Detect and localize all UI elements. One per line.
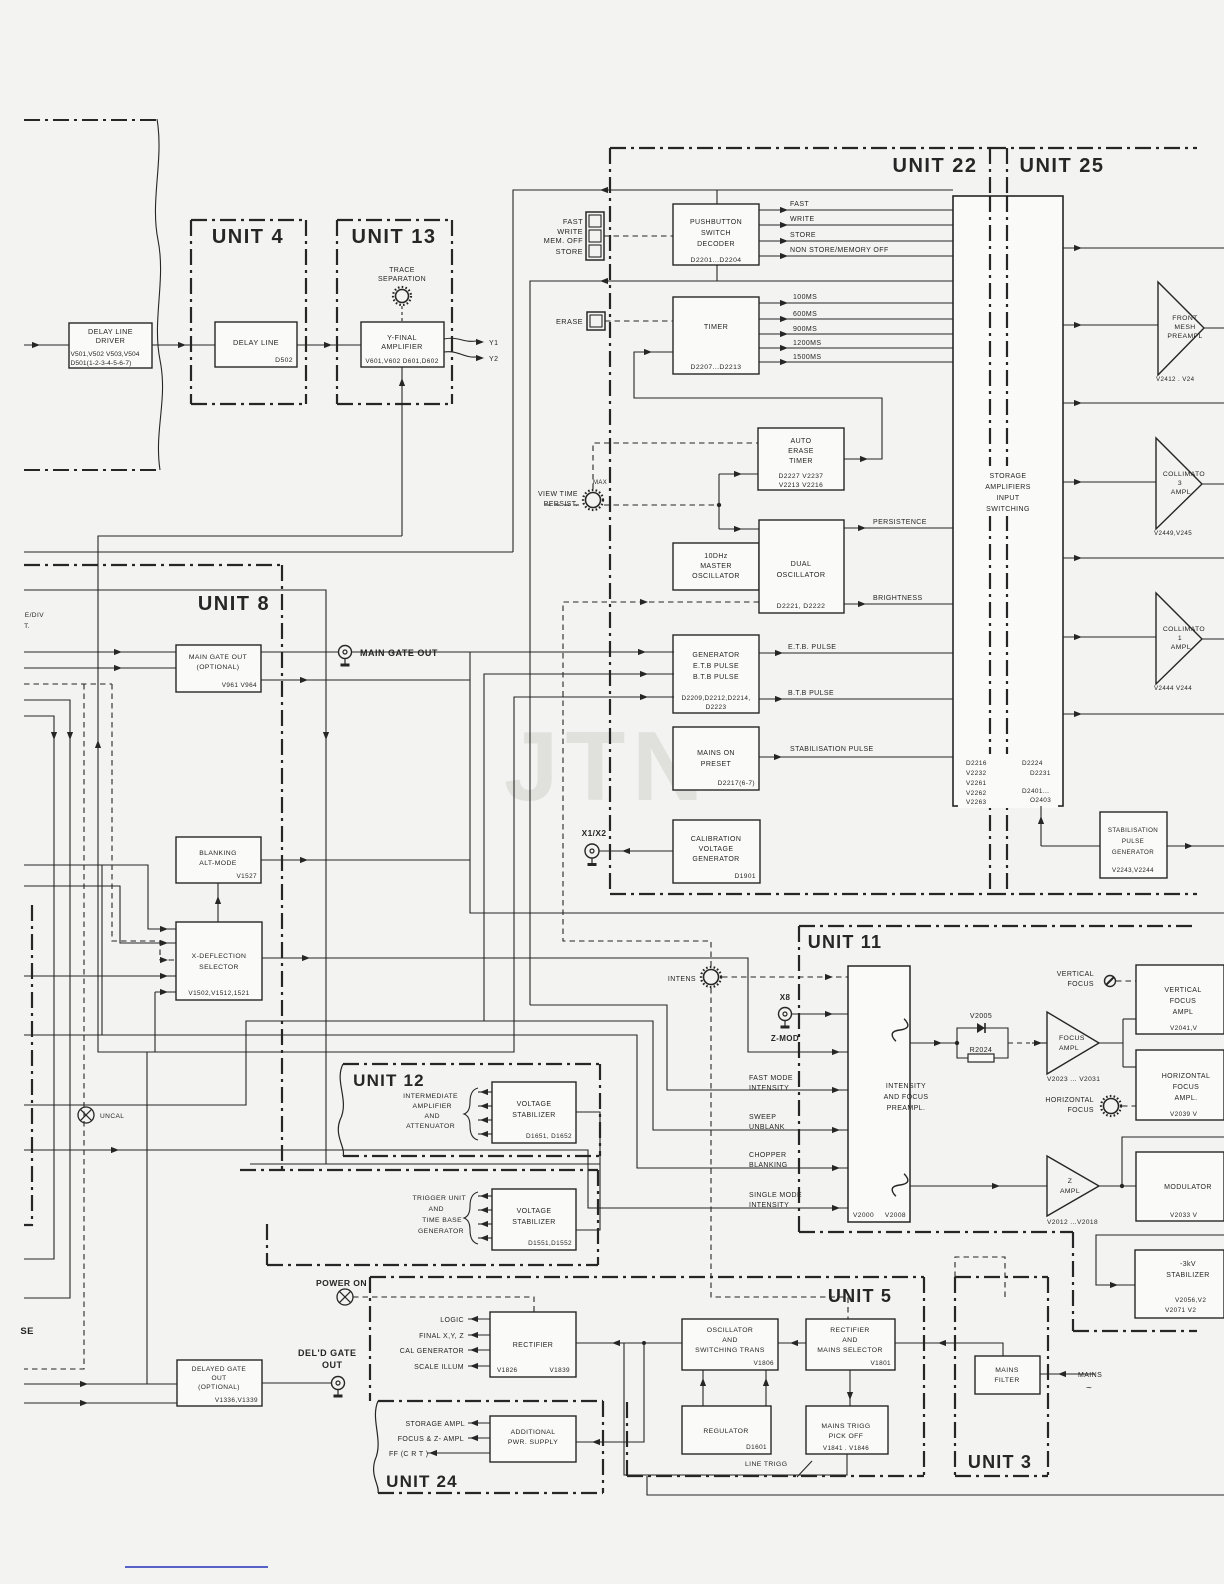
- block dual oscillator: [759, 520, 844, 613]
- svg-text:STORE: STORE: [556, 247, 583, 256]
- storage output line 2 to front mesh preamp: [1063, 324, 1158, 326]
- left wire trunk x=98: [98, 536, 674, 1052]
- svg-text:V2262: V2262: [966, 790, 987, 797]
- svg-text:PRESET: PRESET: [701, 761, 732, 768]
- svg-text:MAIN GATE OUT: MAIN GATE OUT: [189, 654, 247, 661]
- trigger unit sub border: [240, 1169, 598, 1171]
- svg-text:100MS: 100MS: [793, 294, 817, 301]
- svg-text:Y-FINAL: Y-FINAL: [387, 333, 417, 342]
- svg-text:V501,V502 V503,V504: V501,V502 V503,V504: [71, 351, 140, 358]
- wire output Y2: [444, 352, 476, 357]
- svg-text:Y2: Y2: [489, 356, 498, 363]
- wire auto erase timer to timer input: [634, 352, 882, 459]
- unit borders through storage box: [989, 196, 991, 806]
- svg-text:E.T.B PULSE: E.T.B PULSE: [693, 663, 739, 670]
- wire calibration generator to X1/X2: [599, 850, 673, 852]
- svg-text:BRIGHTNESS: BRIGHTNESS: [873, 595, 923, 602]
- UNIT 22 border: [610, 147, 990, 149]
- wire feedback to decoder top: [513, 190, 953, 552]
- wire single mode intensity: [24, 1150, 848, 1208]
- svg-text:SWITCHING: SWITCHING: [986, 506, 1030, 513]
- svg-text:1200MS: 1200MS: [793, 340, 821, 347]
- svg-text:VIEW TIME: VIEW TIME: [538, 491, 578, 498]
- svg-text:AND: AND: [842, 1337, 858, 1344]
- wire main gate second output: [261, 679, 470, 681]
- storage output line 6 to collimator 1: [1063, 636, 1156, 638]
- svg-text:FILTER: FILTER: [994, 1377, 1019, 1384]
- svg-text:VOLTAGE: VOLTAGE: [517, 1101, 552, 1108]
- svg-text:DUAL: DUAL: [791, 559, 812, 568]
- wire z input: [910, 1185, 1047, 1187]
- dashed unit3 riser: [955, 1257, 1005, 1300]
- svg-text:D2207...D2213: D2207...D2213: [691, 364, 742, 371]
- svg-text:V2000: V2000: [853, 1212, 874, 1219]
- svg-text:ERASE: ERASE: [788, 448, 814, 455]
- svg-text:V961 V964: V961 V964: [222, 682, 257, 689]
- UNIT 25 border: [990, 147, 1197, 149]
- block horizontal focus ampl: [1136, 1050, 1224, 1120]
- block calibration voltage generator: [673, 820, 760, 883]
- svg-text:PULSE: PULSE: [1122, 838, 1144, 845]
- svg-text:OUT: OUT: [322, 1360, 343, 1370]
- wire stabilizer feeds: [576, 1112, 600, 1230]
- svg-text:UNCAL: UNCAL: [100, 1113, 124, 1120]
- svg-text:VOLTAGE: VOLTAGE: [517, 1208, 552, 1215]
- svg-text:AMPLIFIER: AMPLIFIER: [413, 1103, 452, 1110]
- svg-text:X8: X8: [780, 993, 791, 1002]
- svg-text:E.T.B. PULSE: E.T.B. PULSE: [788, 644, 836, 651]
- svg-text:TIMER: TIMER: [789, 458, 813, 465]
- svg-text:V1826: V1826: [497, 1367, 518, 1374]
- dashed wire erase to timer: [605, 320, 673, 322]
- wire X8 to preamp: [792, 1013, 848, 1015]
- svg-text:T.: T.: [24, 623, 30, 630]
- svg-text:FF (C R T ): FF (C R T ): [389, 1451, 429, 1458]
- svg-text:FOCUS: FOCUS: [1170, 998, 1197, 1005]
- trunk wire down to unit 11 top line: [470, 652, 1224, 913]
- svg-text:INTENS: INTENS: [668, 976, 696, 983]
- svg-text:GENERATOR: GENERATOR: [692, 856, 739, 863]
- svg-text:FOCUS & Z- AMPL: FOCUS & Z- AMPL: [398, 1436, 464, 1443]
- block mains trigg pick off: [806, 1406, 888, 1454]
- UNIT 4 border: [190, 220, 192, 404]
- svg-text:PERSISTENCE: PERSISTENCE: [873, 519, 927, 526]
- svg-text:UNIT 22: UNIT 22: [893, 155, 978, 177]
- svg-text:TIMER: TIMER: [704, 322, 728, 331]
- amplifier z ampl: [1047, 1156, 1099, 1216]
- svg-text:UNIT 8: UNIT 8: [198, 593, 270, 615]
- svg-text:1500MS: 1500MS: [793, 354, 821, 361]
- svg-text:DELAYED GATE: DELAYED GATE: [192, 1366, 247, 1373]
- UNIT 24 border with wavy left: [378, 1400, 603, 1402]
- svg-text:DELAY LINE: DELAY LINE: [88, 327, 133, 336]
- svg-text:MAINS SELECTOR: MAINS SELECTOR: [817, 1347, 883, 1354]
- wire selector to mains trigg: [849, 1370, 851, 1406]
- svg-text:V1806: V1806: [754, 1360, 775, 1367]
- svg-text:D1601: D1601: [746, 1444, 767, 1451]
- svg-text:AMPL: AMPL: [1059, 1045, 1079, 1052]
- wire feed to y-final from below: [401, 367, 403, 536]
- amplifier focus ampl: [1047, 1012, 1099, 1074]
- bottom left unit border fragment: [24, 905, 32, 1225]
- wire input main gate 2: [24, 667, 176, 669]
- wire feedback decoder bottom: [530, 281, 953, 1005]
- svg-text:FOCUS: FOCUS: [1068, 1107, 1095, 1114]
- svg-text:UNIT 25: UNIT 25: [1020, 155, 1105, 177]
- amplifier front mesh preampl: [1158, 282, 1204, 375]
- svg-text:MAINS TRIGG: MAINS TRIGG: [821, 1423, 870, 1430]
- svg-text:INPUT: INPUT: [997, 495, 1020, 502]
- svg-text:AMPL.: AMPL.: [1171, 489, 1193, 496]
- svg-text:Z-MOD: Z-MOD: [771, 1034, 799, 1043]
- svg-text:D2221, D2222: D2221, D2222: [777, 603, 826, 610]
- block voltage stabilizer D1551: [492, 1189, 576, 1250]
- svg-text:D2216: D2216: [966, 760, 987, 767]
- wire junction to additional pwr supply: [576, 1343, 644, 1442]
- brace and arrows voltage stabilizer 2: [464, 1192, 478, 1244]
- svg-text:V2449,V245: V2449,V245: [1154, 530, 1192, 537]
- pushbutton switch stack: [586, 212, 604, 260]
- svg-text:V2232: V2232: [966, 770, 987, 777]
- ERASE pushbutton: [587, 312, 605, 330]
- svg-text:STABILISATION: STABILISATION: [1108, 827, 1158, 834]
- svg-text:INTERMEDIATE: INTERMEDIATE: [403, 1093, 458, 1100]
- storage output line 7: [1063, 713, 1224, 715]
- svg-text:LINE TRIGG: LINE TRIGG: [745, 1461, 787, 1468]
- block delay line driver: [69, 323, 152, 368]
- svg-text:FOCUS: FOCUS: [1059, 1035, 1085, 1042]
- dashed power on to rectifier: [353, 1297, 534, 1312]
- wire mains selector to oscillator: [778, 1342, 806, 1344]
- wire chopper blanking: [24, 1035, 848, 1168]
- svg-text:AMPL.: AMPL.: [1174, 1095, 1197, 1102]
- svg-text:SWITCH: SWITCH: [701, 230, 731, 237]
- dashed wire pot to bracket: [604, 504, 719, 506]
- svg-text:V2005: V2005: [970, 1013, 992, 1020]
- svg-text:STABILIZER: STABILIZER: [512, 1219, 556, 1226]
- svg-text:600MS: 600MS: [793, 311, 817, 318]
- svg-text:HORIZONTAL: HORIZONTAL: [1045, 1097, 1094, 1104]
- wire input main gate 1: [24, 651, 176, 653]
- svg-text:AMPL: AMPL: [1060, 1188, 1080, 1195]
- wire focus ampl output branches: [1099, 1042, 1123, 1044]
- svg-text:D501(1-2-3-4-5-6-7): D501(1-2-3-4-5-6-7): [71, 360, 132, 367]
- svg-text:MASTER: MASTER: [700, 563, 732, 570]
- wire mains selector to mains filter: [895, 1343, 1003, 1356]
- svg-text:UNIT 5: UNIT 5: [828, 1286, 892, 1306]
- svg-text:3: 3: [1178, 480, 1182, 487]
- svg-text:TRIGGER UNIT: TRIGGER UNIT: [412, 1195, 466, 1202]
- wire xdefl output: [262, 958, 848, 1052]
- wire into delay line driver: [24, 344, 69, 346]
- svg-text:Z: Z: [1068, 1178, 1073, 1185]
- main gate out connector: [339, 646, 352, 659]
- INTENS pot: [704, 970, 719, 985]
- svg-text:D2217(6-7): D2217(6-7): [718, 780, 755, 787]
- svg-text:UNBLANK: UNBLANK: [749, 1124, 785, 1131]
- blue pen mark bottom: [125, 1566, 268, 1568]
- svg-text:PREAMPL: PREAMPL: [1167, 333, 1202, 340]
- UNIT 12 border with wavy left edge: [343, 1063, 600, 1065]
- dashed wire pot to auto erase timer: [593, 443, 758, 489]
- svg-text:INTENSITY: INTENSITY: [749, 1085, 789, 1092]
- storage output line 4 to collimator 3: [1063, 481, 1156, 483]
- svg-text:V1527: V1527: [237, 873, 258, 880]
- svg-text:OSCILLATOR: OSCILLATOR: [707, 1327, 753, 1334]
- svg-text:MAIN GATE OUT: MAIN GATE OUT: [360, 648, 438, 658]
- svg-text:MAINS: MAINS: [1078, 1372, 1102, 1379]
- svg-text:STORAGE: STORAGE: [990, 473, 1027, 480]
- svg-text:SELECTOR: SELECTOR: [199, 964, 239, 971]
- svg-text:D1651, D1652: D1651, D1652: [526, 1133, 572, 1140]
- svg-text:STORAGE AMPL: STORAGE AMPL: [405, 1421, 465, 1428]
- svg-text:UNIT 4: UNIT 4: [212, 226, 284, 248]
- block auto erase timer: [758, 428, 844, 490]
- svg-text:V2041,V: V2041,V: [1170, 1025, 1198, 1032]
- storage output line 5: [1063, 557, 1224, 559]
- wire xdefl inputs: [24, 865, 176, 929]
- svg-text:STABILIZER: STABILIZER: [512, 1112, 556, 1119]
- block y-final amplifier: [361, 322, 444, 367]
- svg-text:OUT: OUT: [211, 1375, 226, 1382]
- svg-text:RECTIFIER: RECTIFIER: [830, 1327, 869, 1334]
- svg-text:STORE: STORE: [790, 232, 816, 239]
- svg-text:PREAMPL.: PREAMPL.: [887, 1105, 926, 1112]
- svg-text:D2401...: D2401...: [1022, 788, 1049, 795]
- svg-text:DECODER: DECODER: [697, 241, 735, 248]
- svg-text:AUTO: AUTO: [791, 438, 812, 445]
- svg-text:D2201...D2204: D2201...D2204: [691, 257, 742, 264]
- block pushbutton switch decoder: [673, 204, 759, 265]
- svg-text:CHOPPER: CHOPPER: [749, 1152, 786, 1159]
- wire main gate to connector and generator: [261, 651, 339, 653]
- svg-text:GENERATOR: GENERATOR: [692, 652, 739, 659]
- svg-text:WRITE: WRITE: [790, 216, 815, 223]
- svg-text:AND FOCUS: AND FOCUS: [884, 1094, 929, 1101]
- svg-text:D2223: D2223: [706, 704, 727, 711]
- wire output Y1: [444, 338, 476, 341]
- svg-text:SCALE ILLUM: SCALE ILLUM: [414, 1364, 464, 1371]
- dashed intens to preamp: [722, 976, 848, 978]
- svg-text:OSCILLATOR: OSCILLATOR: [692, 573, 740, 580]
- svg-text:GENERATOR: GENERATOR: [1112, 849, 1154, 856]
- wire xdefl to blanking: [217, 883, 219, 922]
- svg-text:D502: D502: [275, 357, 293, 364]
- svg-text:V2243,V2244: V2243,V2244: [1112, 867, 1154, 874]
- UNIT 13 border: [336, 220, 338, 404]
- UNCAL lamp: [78, 1107, 94, 1123]
- block storage amplifiers input switching: [953, 196, 1063, 806]
- block regulator: [682, 1406, 771, 1454]
- wire bracket to auto erase timer and dual oscillator: [718, 474, 720, 529]
- svg-text:FOCUS: FOCUS: [1173, 1084, 1200, 1091]
- svg-text:R2024: R2024: [970, 1047, 993, 1054]
- svg-text:D2224: D2224: [1022, 760, 1043, 767]
- left wire trunk y=591: [24, 590, 326, 1164]
- wire trunk x102: [101, 865, 103, 1035]
- wire lower trunk x147: [146, 1052, 148, 1384]
- block x-deflection selector: [176, 922, 262, 1000]
- storage output line 3: [1063, 402, 1224, 404]
- svg-text:V2444 V244: V2444 V244: [1154, 685, 1192, 692]
- storage output line 1: [1063, 247, 1224, 249]
- svg-text:STABILISATION PULSE: STABILISATION PULSE: [790, 746, 874, 753]
- svg-text:MEM. OFF: MEM. OFF: [544, 236, 583, 245]
- svg-text:ATTENUATOR: ATTENUATOR: [406, 1123, 455, 1130]
- svg-text:B.T.B PULSE: B.T.B PULSE: [788, 690, 834, 697]
- svg-text:FINAL X,Y, Z: FINAL X,Y, Z: [419, 1333, 464, 1340]
- svg-text:VERTICAL: VERTICAL: [1164, 987, 1201, 994]
- svg-text:OSCILLATOR: OSCILLATOR: [777, 570, 826, 579]
- svg-text:X1/X2: X1/X2: [582, 828, 607, 838]
- svg-text:NON STORE/MEMORY OFF: NON STORE/MEMORY OFF: [790, 247, 889, 254]
- svg-text:TRACE: TRACE: [389, 267, 415, 274]
- svg-text:1: 1: [1178, 635, 1182, 642]
- svg-text:V2412 . V24: V2412 . V24: [1156, 376, 1195, 383]
- UNIT 8 border: [24, 564, 282, 566]
- svg-text:TIME BASE: TIME BASE: [422, 1217, 462, 1224]
- svg-text:PUSHBUTTON: PUSHBUTTON: [690, 219, 742, 226]
- svg-text:(OPTIONAL): (OPTIONAL): [197, 664, 240, 671]
- svg-text:FRONT: FRONT: [1172, 315, 1197, 322]
- svg-text:HORIZONTAL: HORIZONTAL: [1162, 1073, 1211, 1080]
- svg-text:LOGIC: LOGIC: [440, 1317, 464, 1324]
- svg-text:V1801: V1801: [871, 1360, 892, 1367]
- svg-text:WRITE: WRITE: [557, 227, 583, 236]
- svg-text:V2039 V: V2039 V: [1170, 1111, 1198, 1118]
- svg-text:V2008: V2008: [885, 1212, 906, 1219]
- wire preamp to diode network: [910, 1042, 957, 1044]
- block timer: [673, 297, 759, 374]
- block oscillator and switching trans: [682, 1319, 778, 1370]
- svg-text:DEL'D GATE: DEL'D GATE: [298, 1348, 356, 1358]
- svg-text:AMPL.: AMPL.: [1171, 644, 1193, 651]
- svg-text:MESH: MESH: [1174, 324, 1195, 331]
- svg-text:MAINS: MAINS: [995, 1367, 1019, 1374]
- wire storage box to stabilisation pulse generator: [1063, 845, 1100, 847]
- wire to -3kV stabilizer: [1096, 1235, 1224, 1285]
- svg-text:D2231: D2231: [1030, 770, 1051, 777]
- block generator ETB BTB pulse: [673, 635, 759, 713]
- svg-text:INTENSITY: INTENSITY: [749, 1202, 789, 1209]
- block 10DHz master oscillator: [673, 543, 759, 590]
- wire fast mode intensity: [530, 1005, 848, 1090]
- svg-text:PICK OFF: PICK OFF: [829, 1433, 864, 1440]
- dashed brightness control from intens pot: [563, 602, 759, 967]
- svg-text:FAST: FAST: [790, 201, 809, 208]
- svg-text:MAX: MAX: [593, 480, 607, 486]
- svg-text:900MS: 900MS: [793, 326, 817, 333]
- block -3kV stabilizer: [1135, 1250, 1224, 1318]
- svg-text:SWEEP: SWEEP: [749, 1114, 776, 1121]
- svg-text:AND: AND: [428, 1206, 444, 1213]
- block voltage stabilizer D1651: [492, 1082, 576, 1143]
- svg-text:O2403: O2403: [1030, 797, 1051, 804]
- block stabilisation pulse generator: [1100, 812, 1167, 878]
- svg-text:SINGLE MODE: SINGLE MODE: [749, 1192, 802, 1199]
- svg-text:INTENSITY: INTENSITY: [886, 1083, 926, 1090]
- svg-text:10DHz: 10DHz: [704, 553, 727, 560]
- svg-text:~: ~: [1086, 1383, 1092, 1394]
- wire z ampl output: [1099, 1185, 1136, 1187]
- svg-text:E/DIV: E/DIV: [25, 612, 44, 619]
- svg-text:V2071 V2: V2071 V2: [1165, 1307, 1196, 1314]
- svg-text:Y1: Y1: [489, 340, 498, 347]
- diode V2005 and resistor R2024: [957, 1028, 1008, 1043]
- svg-text:AMPL: AMPL: [1173, 1009, 1194, 1016]
- svg-text:UNIT 24: UNIT 24: [386, 1472, 458, 1491]
- svg-text:DRIVER: DRIVER: [96, 336, 126, 345]
- svg-text:COLLIMATO: COLLIMATO: [1163, 471, 1205, 478]
- svg-text:CALIBRATION: CALIBRATION: [691, 836, 742, 843]
- svg-text:D2209,D2212,D2214,: D2209,D2212,D2214,: [681, 695, 750, 702]
- svg-text:ALT-MODE: ALT-MODE: [199, 860, 237, 867]
- svg-text:D1901: D1901: [735, 873, 756, 880]
- svg-text:V2023 ... V2031: V2023 ... V2031: [1047, 1076, 1100, 1083]
- UNIT 5 border: [370, 1276, 924, 1278]
- wire blanking output: [261, 859, 470, 861]
- block mains filter: [975, 1356, 1040, 1394]
- svg-text:COLLIMATO: COLLIMATO: [1163, 626, 1205, 633]
- left dashed trunk: [24, 683, 112, 685]
- amplifier collimator 3: [1156, 438, 1202, 529]
- block rectifier and mains selector: [806, 1319, 895, 1370]
- svg-text:STABILIZER: STABILIZER: [1166, 1272, 1210, 1279]
- block vertical focus ampl: [1136, 965, 1224, 1034]
- svg-text:UNIT 3: UNIT 3: [968, 1452, 1032, 1472]
- svg-text:UNIT 13: UNIT 13: [352, 226, 437, 248]
- svg-text:V2261: V2261: [966, 780, 987, 787]
- block blanking alt-mode: [176, 837, 261, 883]
- svg-text:AMPLIFIER: AMPLIFIER: [381, 342, 423, 351]
- dashed wire pushbuttons to decoder: [604, 235, 673, 237]
- wire delayed gate to connector: [262, 1382, 331, 1384]
- svg-text:B.T.B PULSE: B.T.B PULSE: [693, 674, 739, 681]
- svg-text:DELAY LINE: DELAY LINE: [233, 338, 279, 347]
- svg-text:VOLTAGE: VOLTAGE: [699, 846, 734, 853]
- svg-text:BLANKING: BLANKING: [199, 850, 237, 857]
- svg-text:FAST: FAST: [563, 217, 583, 226]
- svg-text:POWER ON: POWER ON: [316, 1278, 367, 1288]
- svg-text:V1839: V1839: [550, 1367, 571, 1374]
- svg-text:V1841 . V1846: V1841 . V1846: [823, 1445, 869, 1452]
- svg-text:V601,V602 D601,D602: V601,V602 D601,D602: [365, 358, 438, 365]
- wire delayed gate inputs: [24, 1383, 177, 1385]
- svg-text:-3kV: -3kV: [1180, 1261, 1196, 1268]
- svg-text:PWR. SUPPLY: PWR. SUPPLY: [508, 1439, 558, 1446]
- block rectifier V1826: [490, 1312, 576, 1377]
- UNIT 3 border: [955, 1276, 1048, 1278]
- wire mains input: [1040, 1373, 1095, 1375]
- svg-text:RECTIFIER: RECTIFIER: [513, 1342, 554, 1349]
- block modulator: [1136, 1152, 1224, 1221]
- svg-text:D2227 V2237: D2227 V2237: [779, 473, 824, 480]
- svg-text:V1336,V1339: V1336,V1339: [215, 1397, 258, 1404]
- svg-text:SEPARATION: SEPARATION: [378, 276, 426, 283]
- block delay line: [215, 322, 297, 367]
- svg-text:V2213 V2216: V2213 V2216: [779, 482, 823, 489]
- oscillator regulator loop: [702, 1370, 704, 1406]
- svg-text:V1502,V1512,1521: V1502,V1512,1521: [188, 990, 249, 997]
- wire rectifier to oscillator: [576, 1342, 682, 1344]
- svg-text:D1551,D1552: D1551,D1552: [528, 1240, 572, 1247]
- svg-text:AMPLIFIERS: AMPLIFIERS: [985, 484, 1031, 491]
- svg-text:V2056,V2: V2056,V2: [1175, 1297, 1206, 1304]
- block intensity and focus preampl: [848, 966, 910, 1222]
- svg-text:V2033 V: V2033 V: [1170, 1212, 1198, 1219]
- svg-text:GENERATOR: GENERATOR: [418, 1228, 464, 1235]
- svg-text:ADDITIONAL: ADDITIONAL: [511, 1429, 556, 1436]
